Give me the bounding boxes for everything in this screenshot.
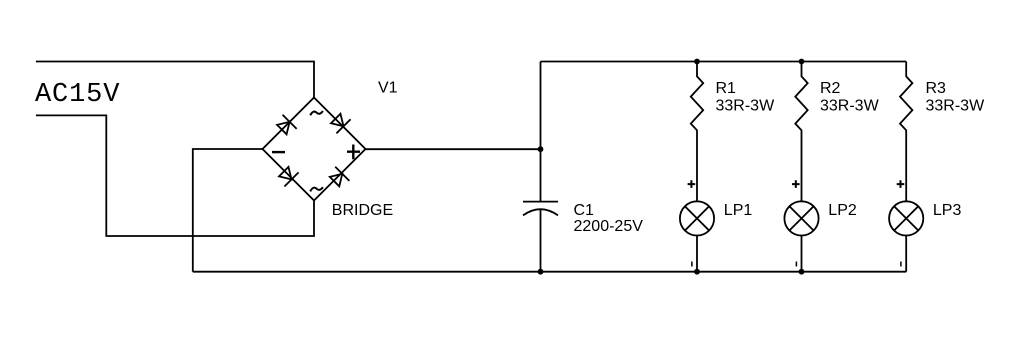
svg-text:R3: R3 [926,80,947,97]
wire AC input bottom [36,115,314,236]
junction dot bottom rail LP2 [799,269,805,275]
svg-text:R2: R2 [820,80,841,97]
wire minus terminal to bottom rail [193,149,263,272]
diode D-topleft [277,115,297,135]
bridge minus sign [272,151,285,153]
svg-text:2200-25V: 2200-25V [574,218,644,235]
svg-text:R1: R1 [716,80,737,97]
junction dot top rail R2 [799,59,805,65]
svg-text:BRIDGE: BRIDGE [332,202,393,219]
junction dot top rail R1 [694,59,700,65]
svg-text:C1: C1 [574,202,595,219]
junction dot bottom rail LP1 [694,269,700,275]
svg-text:33R-3W: 33R-3W [926,98,986,115]
diode D-bottomright [330,167,350,187]
minus tick LP3 [900,262,902,267]
bridge plus sign [347,145,360,160]
wire C1 bottom lead [540,209,542,272]
wire top rail [541,61,907,63]
junction dot plus/C1 [538,146,544,152]
lamp LP3 [889,201,923,271]
lamp LP2 [784,201,818,271]
junction dot bottom rail C1 [538,269,544,275]
diode D-topright [331,114,351,134]
plus mark LP2 [792,180,800,188]
resistor R3 zigzag [900,62,912,202]
lamp LP1 [680,201,714,271]
svg-text:LP1: LP1 [724,202,753,219]
resistor R1 zigzag [691,62,703,202]
resistor R2 zigzag [795,62,807,202]
svg-text:33R-3W: 33R-3W [820,98,880,115]
svg-text:LP3: LP3 [933,202,962,219]
svg-text:V1: V1 [378,80,398,97]
plus mark LP3 [897,180,905,188]
plus mark LP1 [688,180,696,188]
wire C1 top lead [540,62,542,202]
svg-text:33R-3W: 33R-3W [716,98,776,115]
bridge tilde bottom [310,187,323,191]
bridge tilde top [310,111,323,115]
minus tick LP1 [691,262,693,267]
minus tick LP2 [795,262,797,267]
svg-text:LP2: LP2 [828,202,857,219]
wire plus terminal to C1 [366,148,541,150]
wire bottom rail [193,271,906,273]
capacitor C1 plates [523,202,558,216]
wire AC input top [36,62,314,98]
svg-text:AC15V: AC15V [35,80,120,110]
bridge V1 diamond [263,98,366,201]
diode D-bottomleft [279,167,299,187]
